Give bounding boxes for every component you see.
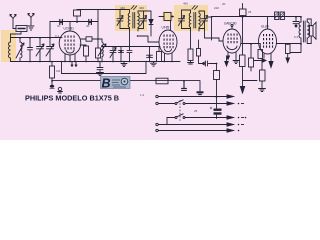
V3 anode wire	[241, 43, 260, 45]
coil L2 secondary	[20, 38, 22, 62]
coupling capacitor C6	[293, 17, 299, 27]
IFT1 top and bottom links	[120, 11, 144, 29]
IFT1 core hatch	[131, 6, 137, 10]
chassis symbol	[58, 87, 63, 93]
ground mid	[121, 62, 127, 67]
detector diode D1	[144, 11, 154, 36]
speaker	[310, 22, 317, 39]
V2 pins and cathode resistor R2	[165, 54, 173, 62]
resistor E1	[159, 13, 174, 31]
resistor R9 on AVC line	[86, 37, 92, 41]
svg-text:40: 40	[86, 24, 90, 28]
logo small text	[112, 80, 126, 87]
ground blob	[197, 81, 204, 95]
svg-text:PHILIPS MODELO B1X75 B: PHILIPS MODELO B1X75 B	[25, 94, 119, 103]
plate feed line	[77, 9, 130, 11]
IFT2 core hatch	[192, 6, 198, 10]
grid top line	[50, 21, 98, 23]
terminal line C	[167, 114, 234, 125]
B+ rail top	[212, 16, 302, 18]
speaker wires	[307, 19, 311, 44]
resistor R8	[96, 48, 101, 62]
terminal line E	[156, 129, 234, 132]
decoupling box X1	[197, 40, 220, 97]
IFT1 winding W1	[128, 10, 129, 31]
value labels	[55, 2, 299, 114]
V4 anode wire	[277, 43, 302, 45]
mains dropper column	[240, 4, 247, 18]
electrolytic cap CE1	[210, 97, 222, 119]
coil L1 primary	[9, 38, 11, 62]
V3 grid wire	[205, 29, 224, 42]
svg-text:25: 25	[248, 10, 252, 14]
cap on AF line	[182, 81, 187, 90]
resistor R3	[157, 47, 162, 62]
svg-text:220: 220	[214, 6, 219, 10]
tube V2 UF89	[159, 30, 177, 54]
AVC arrows	[71, 62, 77, 67]
svg-text:1M: 1M	[56, 69, 61, 73]
grid wire to bus	[49, 22, 51, 38]
svg-text:6,3: 6,3	[294, 35, 299, 39]
top tuning bus	[11, 37, 63, 39]
svg-text:460: 460	[183, 2, 188, 6]
oscillator coil L3	[98, 39, 106, 62]
hatched resistor H1	[275, 12, 279, 20]
V2 grid dashes	[164, 35, 174, 49]
ground under rail at detector	[151, 62, 157, 67]
highlight IF transformer 2 region	[174, 5, 208, 31]
signal arrow right	[254, 59, 267, 62]
terminal lines bottom right	[156, 95, 247, 132]
AF line	[52, 80, 200, 82]
link line	[243, 80, 258, 82]
cathode resistor R5	[286, 44, 302, 63]
output transformer primary	[299, 17, 301, 44]
capacitor C1	[28, 38, 33, 62]
tube V4 UL84	[259, 17, 277, 54]
output transformer core	[303, 21, 305, 42]
capacitor C3	[89, 20, 92, 25]
AF resistor R4	[156, 78, 168, 84]
tube V3 UABC80	[223, 25, 241, 54]
wire antenna to coil	[11, 29, 22, 39]
background paper	[0, 0, 320, 140]
IFT2 winding W3	[189, 10, 190, 31]
B+ drop right of IFT2	[208, 17, 212, 40]
grid resistor R6 and cap to ground	[50, 62, 55, 89]
antenna A1	[10, 15, 16, 29]
long drop wire	[62, 62, 147, 74]
watermark logo box	[101, 76, 131, 90]
trimmer CT1	[110, 47, 116, 62]
IFT1 trimmer right	[141, 11, 147, 29]
tube V1 UCH81	[59, 22, 81, 55]
decoupling cap and ground at V1	[97, 62, 104, 76]
padder box	[74, 10, 81, 22]
resistor RB	[258, 44, 263, 59]
ground right column	[259, 89, 266, 92]
capacitor C4b	[127, 31, 132, 62]
terminal line A	[156, 95, 234, 98]
screen resistor R7	[188, 49, 194, 64]
logo emblem circle	[121, 78, 128, 85]
antenna A2	[28, 14, 34, 26]
IFT2 trimmer right	[202, 11, 208, 29]
screen resistor RD	[249, 44, 254, 71]
svg-text:1,2: 1,2	[140, 93, 145, 97]
IFT2 secondary drop	[190, 31, 192, 49]
svg-text:460: 460	[139, 6, 144, 10]
svg-text:UABC80: UABC80	[224, 22, 237, 26]
svg-text:UCH81: UCH81	[64, 27, 75, 31]
resistor RC	[260, 59, 266, 89]
IFT2 core	[194, 13, 196, 29]
terminal line D	[156, 123, 234, 126]
adjust arrow through L2	[16, 43, 24, 58]
svg-text:25: 25	[194, 109, 198, 113]
V4 pins	[264, 54, 273, 68]
svg-text:20: 20	[222, 2, 226, 6]
highlight resistor E1 region	[163, 12, 174, 22]
dropper resistor RA	[240, 17, 246, 86]
svg-text:B: B	[102, 76, 111, 90]
chassis rail	[11, 61, 181, 63]
B+ down arrow	[240, 87, 244, 94]
svg-text:3n: 3n	[57, 24, 61, 28]
IFT2 links	[182, 10, 205, 29]
capacitor C2	[60, 20, 63, 25]
IFT1 core	[133, 13, 135, 29]
svg-text:UL84: UL84	[261, 25, 269, 29]
tube labels	[64, 22, 269, 31]
osc section line	[102, 46, 160, 48]
IFT2 trimmer left	[179, 10, 185, 29]
output transformer secondary	[307, 22, 309, 38]
bias down arrow	[225, 57, 228, 66]
ground under antenna A2	[28, 26, 34, 30]
V2 grid wire	[138, 36, 160, 42]
resistor R1	[80, 45, 89, 62]
highlight IF transformer 1 region	[115, 5, 147, 31]
link box	[16, 26, 27, 32]
svg-text:0,1: 0,1	[55, 34, 60, 38]
svg-text:460: 460	[120, 6, 125, 10]
terminal line B	[156, 100, 234, 106]
highlight antenna coil region	[1, 30, 16, 62]
V1 grid dashes	[65, 36, 75, 50]
capacitor C4	[119, 47, 124, 62]
svg-text:UF89: UF89	[162, 26, 170, 30]
IFT1 trimmer left	[117, 10, 123, 29]
V3 pins	[227, 52, 240, 64]
switch gang link	[179, 100, 181, 121]
V1 pins	[65, 54, 75, 61]
capacitor C5	[147, 47, 153, 62]
connector dots	[238, 103, 247, 132]
variable capacitor CV2	[46, 38, 54, 62]
AVC drop wire	[81, 10, 102, 48]
IFT2 winding W4	[199, 11, 200, 31]
V3 grid dashes	[228, 34, 238, 44]
V4 grid dashes	[263, 34, 273, 48]
IFT1 winding W2	[138, 11, 139, 31]
variable capacitor CV1	[36, 38, 44, 62]
hatched resistor H2	[280, 12, 284, 20]
